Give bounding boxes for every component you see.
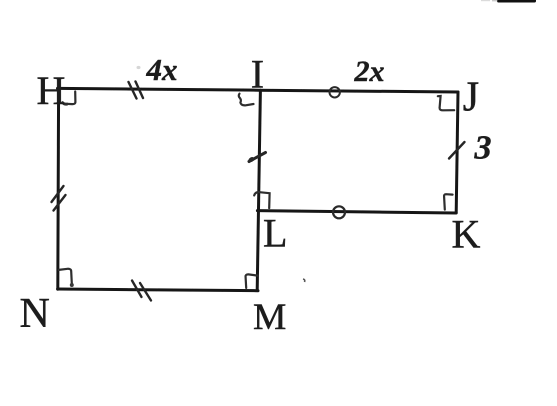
svg-text:2x: 2x	[354, 55, 385, 88]
svg-text:M: M	[253, 297, 286, 338]
svg-text:N: N	[20, 291, 50, 337]
svg-text:3: 3	[474, 129, 492, 166]
svg-text:4x: 4x	[146, 52, 178, 87]
svg-text:I: I	[251, 52, 264, 97]
svg-text:J: J	[463, 75, 479, 121]
svg-text:H: H	[37, 68, 66, 113]
svg-text:L: L	[263, 210, 287, 255]
svg-text:K: K	[452, 212, 481, 257]
